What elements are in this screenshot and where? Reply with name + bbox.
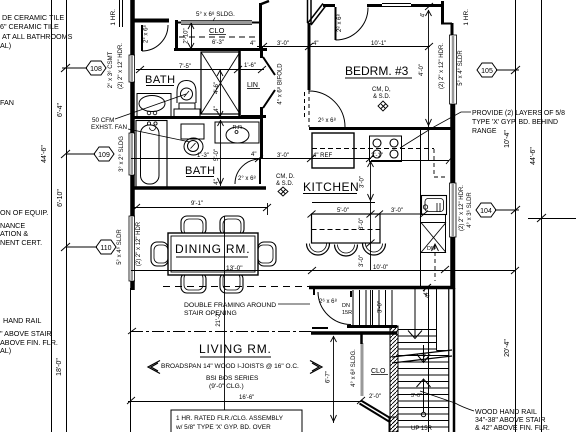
svg-text:CM, D.: CM, D. (276, 174, 295, 180)
svg-text:BEDRM. #3: BEDRM. #3 (345, 64, 409, 78)
svg-text:2'-0": 2'-0" (369, 394, 381, 400)
svg-text:BATH: BATH (185, 165, 216, 177)
svg-text:KITCHEN: KITCHEN (303, 180, 359, 194)
svg-text:1 HR. RATED FLR./CLG. ASSEMBLY: 1 HR. RATED FLR./CLG. ASSEMBLY (176, 415, 284, 422)
svg-text:(2) 2" x 12" HDR.: (2) 2" x 12" HDR. (118, 43, 124, 89)
svg-text:& S.D.: & S.D. (373, 94, 391, 100)
svg-text:(2) 2" x 12" HDR.: (2) 2" x 12" HDR. (459, 185, 465, 231)
svg-text:CLO: CLO (209, 26, 225, 35)
svg-text:4": 4" (214, 179, 220, 184)
svg-text:6'-4": 6'-4" (57, 103, 64, 117)
svg-text:(9'-0" CLG.): (9'-0" CLG.) (209, 383, 244, 390)
svg-text:FAN: FAN (0, 98, 14, 107)
svg-text:2° x 6⁸: 2° x 6⁸ (238, 175, 256, 182)
svg-text:9'-1": 9'-1" (191, 201, 203, 207)
svg-text:3'-0": 3'-0" (391, 208, 403, 214)
svg-text:4": 4" (250, 41, 255, 47)
svg-text:2⁶ x 6⁸: 2⁶ x 6⁸ (319, 298, 337, 305)
svg-text:AT ALL BATHROOMS: AT ALL BATHROOMS (2, 32, 73, 41)
svg-text:4° x 6⁸ SLDG.: 4° x 6⁸ SLDG. (350, 349, 357, 387)
svg-text:HAND RAIL: HAND RAIL (3, 316, 41, 325)
svg-text:UP 15R: UP 15R (411, 426, 433, 432)
svg-text:BATH: BATH (145, 74, 176, 86)
svg-text:AL): AL) (0, 346, 11, 355)
svg-text:2'-10": 2'-10" (184, 28, 190, 43)
svg-text:(2) 2" x 12" HDR.: (2) 2" x 12" HDR. (439, 43, 445, 89)
svg-text:LIVING RM.: LIVING RM. (199, 342, 272, 356)
svg-text:15R: 15R (342, 310, 352, 316)
svg-text:ATION &: ATION & (0, 229, 28, 238)
svg-text:CLO: CLO (371, 368, 386, 375)
svg-text:STAIR OPENING: STAIR OPENING (184, 310, 237, 317)
svg-text:4': 4' (421, 13, 427, 17)
svg-text:4": 4" (214, 106, 220, 111)
svg-text:DE CERAMIC TILE: DE CERAMIC TILE (2, 13, 64, 22)
svg-text:WOOD HAND RAIL: WOOD HAND RAIL (475, 409, 537, 416)
svg-text:7'-5": 7'-5" (179, 64, 191, 70)
svg-text:PROVIDE (2) LAYERS OF 5/8: PROVIDE (2) LAYERS OF 5/8 (472, 110, 565, 117)
svg-text:3'-0": 3'-0" (411, 393, 422, 399)
svg-text:4" REF: 4" REF (313, 153, 332, 159)
svg-text:BROADSPAN 14" WOOD I-JOISTS @: BROADSPAN 14" WOOD I-JOISTS @ 16" O.C. (161, 363, 299, 370)
svg-text:LIN: LIN (247, 82, 258, 89)
svg-text:4'-6": 4'-6" (214, 82, 220, 94)
svg-text:DINING RM.: DINING RM. (175, 242, 250, 256)
svg-text:4° x 3⁶ SLDR: 4° x 3⁶ SLDR (466, 192, 473, 228)
svg-text:w/ 5/8" TYPE 'X' GYP. BD. OVER: w/ 5/8" TYPE 'X' GYP. BD. OVER (175, 424, 271, 431)
svg-text:4'-0": 4'-0" (419, 64, 425, 76)
svg-text:5° x 4° SLDR: 5° x 4° SLDR (458, 50, 464, 86)
svg-text:" ABOVE STAIR: " ABOVE STAIR (0, 329, 52, 338)
svg-text:ON OF EQUIP.: ON OF EQUIP. (0, 208, 48, 217)
svg-text:3° x 2° SLDG: 3° x 2° SLDG (119, 136, 125, 172)
svg-text:TYPE 'X' GYP. BD. BEHIND: TYPE 'X' GYP. BD. BEHIND (472, 119, 558, 126)
svg-text:4": 4" (313, 41, 318, 47)
svg-text:1 HR.: 1 HR. (110, 9, 117, 26)
svg-text:1'-3": 1'-3" (197, 153, 209, 159)
svg-text:3'-0": 3'-0" (359, 218, 365, 230)
svg-text:2° x 6⁸: 2° x 6⁸ (143, 25, 150, 43)
svg-text:50 CFM: 50 CFM (92, 117, 114, 124)
svg-text:DN: DN (342, 303, 350, 309)
svg-text:6'-10": 6'-10" (57, 189, 64, 207)
svg-text:CM, D,: CM, D, (372, 87, 391, 93)
svg-text:R.R: R.R (233, 125, 243, 131)
svg-text:3'-0": 3'-0" (277, 41, 289, 47)
svg-text:10'-0": 10'-0" (373, 265, 388, 271)
svg-text:5° x 4⁶ SLDR: 5° x 4⁶ SLDR (116, 229, 123, 265)
svg-text:13'-0": 13'-0" (226, 265, 243, 272)
svg-text:2⁶ x 6⁸: 2⁶ x 6⁸ (318, 117, 336, 124)
svg-text:10'-4": 10'-4" (504, 130, 511, 148)
svg-text:34"-38" ABOVE STAIR: 34"-38" ABOVE STAIR (475, 417, 546, 424)
svg-text:4': 4' (422, 353, 428, 357)
svg-text:110: 110 (100, 245, 111, 252)
svg-text:& S.D.: & S.D. (276, 181, 294, 187)
svg-text:44'-6": 44'-6" (41, 145, 48, 163)
svg-text:DOUBLE FRAMING AROUND: DOUBLE FRAMING AROUND (184, 302, 276, 309)
svg-text:& 42" ABOVE FIN. FLR.: & 42" ABOVE FIN. FLR. (475, 425, 550, 432)
svg-text:2° x 3⁶ CSMT: 2° x 3⁶ CSMT (107, 51, 114, 88)
svg-text:AL): AL) (0, 41, 11, 50)
svg-text:104: 104 (480, 208, 492, 215)
svg-text:2⁸ x 6⁸: 2⁸ x 6⁸ (336, 14, 343, 33)
svg-text:6'-3": 6'-3" (212, 40, 224, 46)
svg-text:5° x 6⁸ SLDG.: 5° x 6⁸ SLDG. (196, 11, 235, 18)
svg-text:NENT CERT.: NENT CERT. (0, 238, 42, 247)
svg-text:4": 4" (251, 152, 256, 158)
svg-text:2'-1": 2'-1" (371, 153, 383, 159)
svg-text:6" CERAMIC TILE: 6" CERAMIC TILE (0, 22, 59, 31)
svg-text:44'-6": 44'-6" (530, 147, 537, 165)
svg-text:4° x 6⁸ BIFOLD: 4° x 6⁸ BIFOLD (277, 63, 284, 105)
svg-text:(2) 2" x 12" HDR: (2) 2" x 12" HDR (136, 221, 142, 266)
svg-text:6'-7": 6'-7" (326, 371, 332, 383)
svg-text:105: 105 (481, 68, 493, 75)
svg-text:RANGE: RANGE (472, 128, 497, 135)
svg-text:3'-0": 3'-0" (378, 301, 384, 313)
svg-text:5'-0": 5'-0" (214, 149, 220, 161)
svg-text:10'-1": 10'-1" (371, 41, 386, 47)
svg-text:3'-0": 3'-0" (277, 153, 289, 159)
svg-text:DN: DN (427, 246, 435, 252)
svg-text:109: 109 (98, 152, 110, 159)
svg-text:3'-0": 3'-0" (360, 176, 366, 188)
svg-text:5'-0": 5'-0" (337, 208, 349, 214)
svg-text:1 HR.: 1 HR. (463, 9, 470, 26)
svg-text:4": 4" (424, 290, 430, 295)
svg-text:18'-0": 18'-0" (56, 358, 63, 376)
svg-text:BSI BOS SERIES: BSI BOS SERIES (206, 375, 259, 382)
svg-text:3'-0": 3'-0" (359, 255, 365, 267)
svg-text:EXHST. FAN: EXHST. FAN (91, 124, 127, 131)
svg-text:108: 108 (90, 66, 102, 73)
svg-text:1'-6": 1'-6" (244, 63, 256, 69)
svg-text:20'-4": 20'-4" (504, 339, 511, 357)
svg-text:16'-6": 16'-6" (239, 395, 254, 401)
